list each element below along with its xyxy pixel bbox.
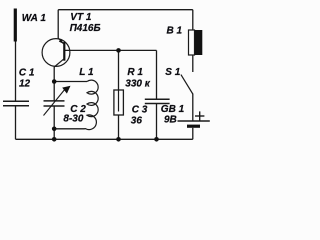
svg-text:WA 1: WA 1 [22,13,47,24]
wire C2 branch down [53,82,55,101]
svg-text:L 1: L 1 [79,67,94,78]
node dot tank top [52,79,57,84]
node dot rail below C3 [154,137,159,142]
battery GB1 long positive plate [178,120,210,122]
node dot rail below C2 [52,137,57,142]
wire tank node to L1 top [54,81,87,83]
svg-text:C 3: C 3 [132,104,148,115]
earphone B1 body black part [195,30,203,55]
variable capacitor C2 arrow line [44,89,66,116]
wire emitter lead from top rail [57,10,59,39]
svg-text:B 1: B 1 [167,25,183,36]
wire antenna to C1 [15,40,17,101]
svg-text:9В: 9В [164,115,177,126]
capacitor C3 plates [145,99,170,103]
transistor VT1 emitter arrowhead [59,39,64,44]
svg-text:VT 1: VT 1 [70,12,92,23]
svg-text:8-30: 8-30 [63,114,83,125]
battery GB1 plus sign [195,111,204,120]
node dot rail below R1 [116,137,121,142]
wire base lead to C3 corner [64,49,156,51]
capacitor C1 plates [3,101,29,106]
wire battery to bottom rail [192,128,194,140]
transistor VT1 emitter diagonal with arrow [58,38,64,44]
wire C2 bottom down to rail [53,106,55,139]
wire R1 lead from base line into body [118,50,120,111]
svg-text:S 1: S 1 [165,67,180,78]
node dot base/R1 [116,48,121,53]
battery GB1 short thick negative plate [187,125,200,128]
svg-text:12: 12 [19,78,31,89]
svg-text:36: 36 [131,116,143,127]
resistor R1 inner lead artifact [118,90,120,112]
transistor VT1 base bar [63,42,65,61]
wire bottom rail [16,138,193,140]
wire R1 bottom lead [118,115,120,139]
svg-text:R 1: R 1 [127,67,143,78]
wire C3 to bottom rail [156,104,158,140]
antenna WA1 [14,9,17,42]
wire L1 bottom to C2 branch [54,128,84,130]
inductor L1 coil loops [84,80,98,129]
svg-text:GB 1: GB 1 [161,104,185,115]
resistor R1 body [114,90,124,115]
svg-text:П416Б: П416Б [70,23,101,34]
node dot L1/C2 bottom [52,127,57,132]
wire collector to tank node [53,67,55,82]
transistor VT1 collector diagonal [54,59,64,67]
transistor VT1 circle [42,39,70,67]
wire right drop to B1 [192,10,194,30]
wire C3 corner down to C3 [156,50,158,99]
variable capacitor C2 plates [44,101,65,106]
svg-text:C 1: C 1 [19,67,35,78]
wire top rail [58,9,193,11]
switch S1 arm [181,75,193,94]
wire B1 bottom to S1 [192,55,194,72]
wire S1 pivot to battery [192,94,194,122]
variable capacitor C2 arrowhead [62,86,70,94]
svg-text:330 к: 330 к [125,79,150,90]
wire C1 to bottom rail corner [15,106,17,139]
earphone B1 body white part [189,30,195,55]
